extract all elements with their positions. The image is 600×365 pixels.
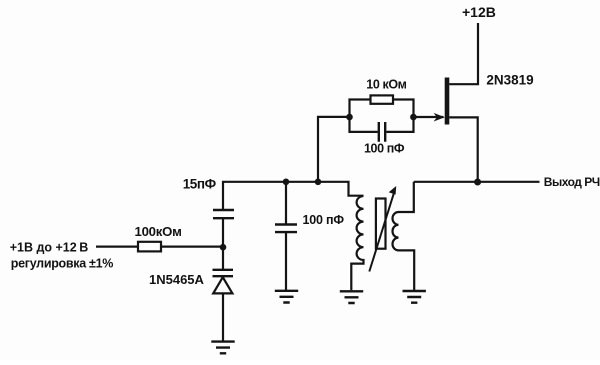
svg-text:Выход РЧ: Выход РЧ <box>544 175 600 189</box>
svg-text:1N5465A: 1N5465A <box>149 272 205 287</box>
svg-text:100 пФ: 100 пФ <box>364 142 405 156</box>
svg-text:10 кОм: 10 кОм <box>366 78 406 92</box>
svg-text:100кОм: 100кОм <box>135 224 182 239</box>
svg-text:регулировка ±1%: регулировка ±1% <box>11 256 113 270</box>
svg-text:+12В: +12В <box>462 4 496 20</box>
svg-text:15пФ: 15пФ <box>183 177 217 192</box>
svg-text:+1В до +12 В: +1В до +12 В <box>10 241 89 255</box>
svg-text:2N3819: 2N3819 <box>486 73 533 88</box>
svg-text:100 пФ: 100 пФ <box>303 213 345 227</box>
